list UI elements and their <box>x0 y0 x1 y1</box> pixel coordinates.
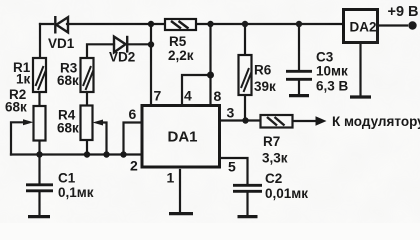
capacitor C2 <box>233 185 262 191</box>
resistor R4 (variable) <box>81 106 93 141</box>
wire top rail right segment to +9V <box>379 24 407 26</box>
resistor R2 (variable) <box>34 106 46 141</box>
ground below C1 <box>28 215 50 218</box>
node at rail x210 <box>207 21 213 27</box>
diode VD2 <box>114 36 127 53</box>
node at rail R6 <box>242 21 248 27</box>
wire R1-R2 connector <box>38 92 40 106</box>
diode VD1 <box>55 16 68 34</box>
wire C1 bottom lead <box>38 192 40 215</box>
node bottom rail pin6 <box>120 151 126 157</box>
arrow R2 wiper <box>23 119 34 125</box>
wire top rail left segment <box>40 23 165 25</box>
arrow R4 wiper <box>93 120 104 126</box>
wire R2 bottom lead <box>38 140 40 155</box>
ground below pin 1 <box>169 212 193 215</box>
wire pin 1 lead <box>179 170 181 211</box>
wire R6 bottom lead <box>244 95 246 121</box>
wire pin 5 to C2 <box>221 158 248 184</box>
wire R4 wiper to bottom rail <box>102 123 107 155</box>
capacitor C1 <box>26 185 53 191</box>
wire VD1 left lead down to R1 <box>39 24 41 58</box>
wire pin 3 to R7 <box>221 119 260 121</box>
resistor R3 <box>81 58 94 92</box>
ground below DA2 <box>350 95 371 98</box>
wire bottom rail to pin 2 <box>11 153 142 155</box>
node pin4 branch <box>207 72 214 79</box>
wire R6 top lead <box>244 24 246 55</box>
resistor R1 <box>33 58 46 92</box>
wire pin 6 stub <box>124 123 143 155</box>
resistor R7 <box>261 115 293 128</box>
scan noise overlay <box>0 0 1 1</box>
wire C3 bottom lead <box>298 80 300 94</box>
wire top rail mid segment <box>196 23 342 25</box>
wire DA2 ground lead <box>359 44 361 96</box>
voltage regulator DA2 <box>344 10 378 43</box>
ground below C3 <box>289 94 309 97</box>
node bottom rail C1 <box>36 151 42 157</box>
wire R4 bottom lead <box>86 140 88 155</box>
wire C1 top lead <box>38 155 40 184</box>
resistor R5 <box>165 19 196 30</box>
node bottom rail R4 <box>84 151 90 157</box>
resistor R6 <box>239 55 252 95</box>
wire R3-R4 connector <box>86 92 88 106</box>
wire R7 to arrow <box>293 120 318 122</box>
wire C3 top lead <box>298 24 300 70</box>
node pin3 R6 junction <box>242 117 248 123</box>
op-amp (IC) DA1 <box>142 106 220 168</box>
wire R2 wiper to bottom rail <box>11 122 24 154</box>
wire VD2 to pin7 vertical <box>127 24 151 104</box>
node at rail x151 <box>148 21 154 27</box>
arrow to modulator output <box>316 116 327 125</box>
wire pin 4 branch <box>182 75 211 104</box>
wire VD2 branch and R3 top lead <box>87 44 114 58</box>
node +9V terminal <box>408 21 416 29</box>
node at rail C3 <box>296 21 302 27</box>
wire pin 8 vertical <box>209 24 211 104</box>
node bottom rail R4 wiper <box>103 151 109 157</box>
ground below C2 <box>238 215 258 218</box>
wire C2 bottom lead <box>246 192 248 215</box>
capacitor C3 <box>286 71 312 79</box>
node VD2 junction <box>148 41 154 47</box>
